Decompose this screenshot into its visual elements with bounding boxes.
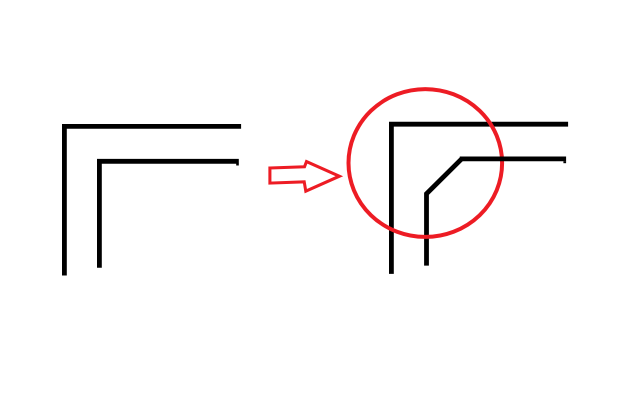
left inner wire end nub [236, 164, 239, 166]
wire left trace outer L (sharp 90-degree corner) [64, 126, 241, 275]
right inner wire end nub [563, 161, 566, 163]
highlight circle (red ellipse around chamfered corner) [349, 89, 503, 237]
wire right trace inner horizontal segment (drawn over circle) [460, 156, 566, 161]
arrow (red block arrow pointing right) [270, 162, 340, 192]
wire left trace inner L (sharp 90-degree corner) [99, 161, 238, 267]
wire right trace outer L (sharp 90-degree corner) [391, 124, 568, 274]
wire right trace inner chamfer diagonal and vertical segment [427, 159, 462, 266]
